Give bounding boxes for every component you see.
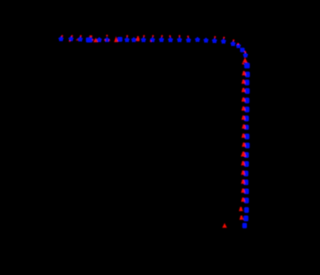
red marker tip 9 (170.0,36.1) <box>169 35 171 37</box>
red triangle v-4 (243.4,99.5) <box>241 97 245 101</box>
blue star marker h-6 (127.0,39.9) <box>124 37 129 42</box>
red speck 4 (93.1,39.8) <box>92 39 94 41</box>
red triangle v-9 (243.8,144.6) <box>242 142 246 146</box>
red marker tip 17 (243.0,63.6) <box>242 63 244 65</box>
blue star marker h-4 (99.3,39.9) <box>97 37 102 42</box>
red marker tip 16 (245.3,52.0) <box>244 51 246 53</box>
red marker tip 6 (144.0,36.0) <box>143 35 145 37</box>
blue square marker v-2 (247.5,74.5) <box>245 72 250 78</box>
red marker tip 13 (224.0,37.6) <box>223 37 225 39</box>
blue square marker v-11 (246.5,155.0) <box>244 152 249 158</box>
red speck 3 (150.6,41.2) <box>150 40 152 42</box>
blue square marker v-19 (244.6,225.6) <box>242 223 247 228</box>
blue star marker h-17 (223.5,41.4) <box>221 39 226 44</box>
red marker tip 3 (80.8,35.9) <box>80 35 82 37</box>
blue square marker v-5 (247.0,100.5) <box>245 98 250 104</box>
blue square marker v-8 (246.5,127.3) <box>244 125 249 130</box>
blue star marker h-11 (170.5,39.9) <box>168 37 173 42</box>
red speck 2 (69.6,41.1) <box>69 40 71 42</box>
red marker tip 11 (188.0,36.5) <box>187 36 189 38</box>
blue star marker h-12 (179.5,39.9) <box>177 37 182 42</box>
red triangle v-17 (241.4,217.6) <box>239 215 243 219</box>
red dash (90.8,36.3) <box>89 35 92 37</box>
blue star marker h-18 (233.0,43.8) <box>230 41 235 46</box>
red triangle v-3 (243.4,90.0) <box>241 88 245 92</box>
red triangle v-11 (243.0,163.2) <box>241 161 245 165</box>
red triangle v-15 (243.0,199.6) <box>241 197 245 201</box>
blue square marker v-13 (246.0,173.5) <box>244 171 249 177</box>
red marker tip 10 (179.5,36.0) <box>179 35 181 37</box>
red marker tip 12 (215.0,37.0) <box>214 36 216 38</box>
red triangle top-3 (245.0,60.0) <box>243 58 248 63</box>
blue square marker v-14 (246.0,182.3) <box>244 179 249 185</box>
blue star marker h-10 (161.5,39.8) <box>159 37 164 42</box>
red triangle v-5 (243.4,108.5) <box>241 106 245 110</box>
blue square marker v-12 (246.5,164.0) <box>244 161 249 167</box>
blue star marker h-5 (107.0,39.9) <box>104 37 109 42</box>
red marker tip 15 (238.0,43.8) <box>237 43 239 45</box>
red marker tip 7 (153.0,36.0) <box>152 35 154 37</box>
blue star marker h-16 (214.5,40.8) <box>212 38 217 43</box>
blue square marker v-17 (246.5,210.0) <box>244 207 249 213</box>
red triangle v-10 (243.4,154.0) <box>241 152 246 157</box>
red marker tip 2 (72.0,35.9) <box>71 35 73 37</box>
blue star marker h-14 (197.5,39.7) <box>195 37 200 42</box>
red marker tip 4 (107.0,35.6) <box>106 35 108 37</box>
red marker tip 5 (127.2,36.0) <box>126 35 128 37</box>
red marker tip 14 (233.6,40.3) <box>233 39 235 41</box>
red triangle isolated (224.6,225.4) <box>222 223 227 228</box>
blue square marker v-6 (247.0,109.5) <box>245 107 250 113</box>
red triangle top-2 (116.0,39.2) <box>114 36 118 42</box>
red triangle v-13 (243.0,181.6) <box>241 179 245 183</box>
red triangle v-1 (243.9,73.2) <box>242 71 246 75</box>
red triangle v-6 (243.4,117.6) <box>241 115 245 119</box>
blue square marker v-1 (247.0,65.6) <box>244 63 250 69</box>
blue square marker (119.9,39.3) <box>117 37 122 42</box>
red triangle top-1 (95.6,40.0) <box>93 38 98 43</box>
blue square marker v-18 (246.0,218.4) <box>244 216 249 222</box>
red triangle v-8 (243.4,135.6) <box>241 133 245 137</box>
red speck 6 (109.4,40.4) <box>109 40 111 42</box>
blue square marker v-4 (247.3,91.0) <box>245 88 250 94</box>
blue star marker h-13 (188.5,40.2) <box>186 37 191 42</box>
blue star marker h-8 (143.5,39.9) <box>141 37 146 42</box>
blue star marker h-1 (61.0,39.0) <box>58 36 63 41</box>
blue square marker v-16 (246.5,200.5) <box>244 198 249 204</box>
red triangle v-14 (243.0,190.6) <box>241 188 245 192</box>
red speck 5 (104.9,40.1) <box>104 39 106 41</box>
blue square marker v-7 (246.5,118.5) <box>244 116 249 122</box>
red triangle v-12 (243.0,172.6) <box>241 170 245 174</box>
blue square marker v-10 (247.3,145.5) <box>245 143 250 149</box>
blue square marker v-9 (247.0,136.5) <box>245 134 250 140</box>
blue star marker h-20 (245.5,55.2) <box>243 52 248 57</box>
red triangle v-16 (240.9,209.0) <box>239 207 243 211</box>
blue square marker v-15 (246.5,191.3) <box>244 188 249 194</box>
blue wide marker (89.2,40.0) <box>86 37 93 42</box>
blue star marker h-3 (80.2,39.3) <box>77 36 82 41</box>
red marker tip 1 (62.2,35.9) <box>61 35 63 37</box>
red marker tip 8 (162.0,36.0) <box>161 35 163 37</box>
blue square marker v-3 (247.0,82.5) <box>245 80 250 86</box>
blue star marker h-7 (133.8,39.9) <box>131 37 136 42</box>
blue square marker (242.4,50.0) <box>240 48 245 53</box>
red triangle v-7 (243.8,126.5) <box>242 124 246 128</box>
blue star marker h-15 (206.0,40.4) <box>203 38 208 43</box>
red triangle v-2 (243.4,81.6) <box>241 79 245 83</box>
red bar marker (137.9,38.7) <box>137 36 139 38</box>
blue star marker h-2 (71.0,39.0) <box>68 36 73 41</box>
red speck 1 (77.0,39.9) <box>76 39 78 41</box>
blue star marker h-19 (238.4,45.9) <box>236 43 241 48</box>
blue star marker h-9 (152.5,39.9) <box>150 37 155 42</box>
